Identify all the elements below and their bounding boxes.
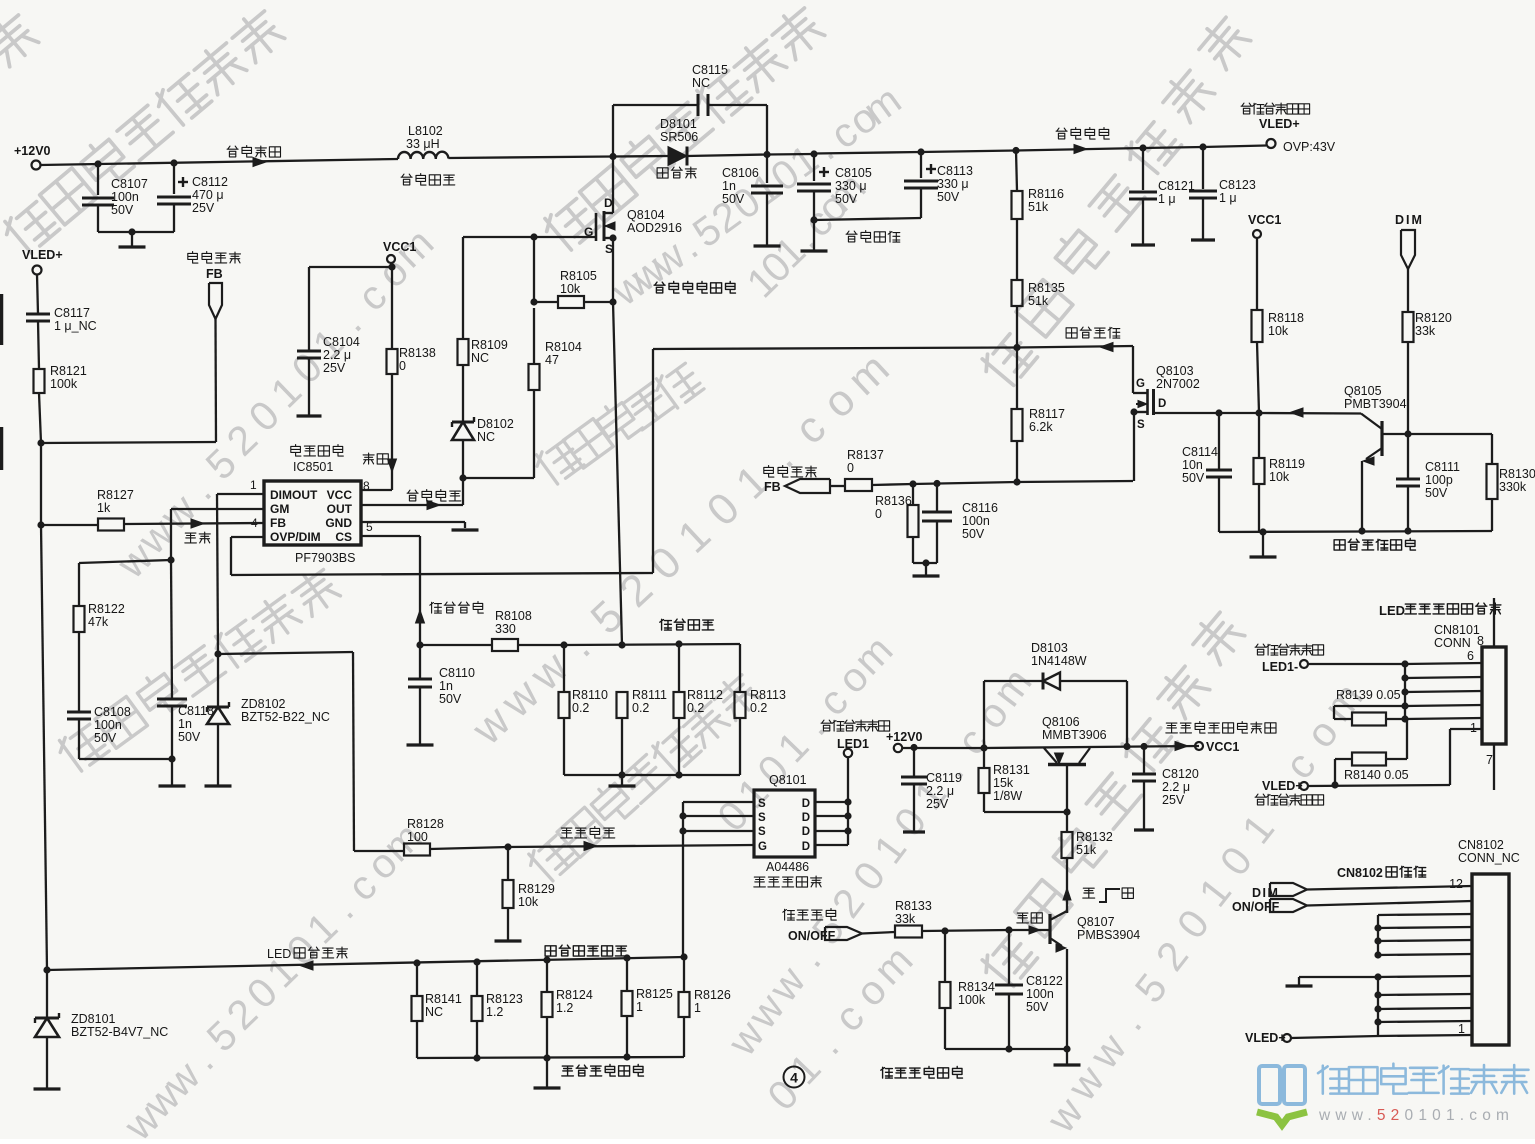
svg-text:33k: 33k xyxy=(1415,324,1436,338)
capacitor C8112 electrolytic xyxy=(173,163,175,194)
node xyxy=(473,1054,480,1061)
ground below C8107/C8112 xyxy=(131,232,133,246)
svg-text:PF7903BS: PF7903BS xyxy=(295,551,355,565)
node R8111 bottom xyxy=(618,771,625,778)
label 点灯控制电路 xyxy=(881,1067,893,1078)
node R8105 right xyxy=(609,298,616,305)
resistor R8122 xyxy=(74,606,85,632)
svg-text:25V: 25V xyxy=(1162,793,1185,807)
svg-text:100p: 100p xyxy=(1425,473,1453,487)
svg-text:R8134: R8134 xyxy=(958,980,995,994)
svg-text:6: 6 xyxy=(1467,649,1474,663)
svg-text:R8135: R8135 xyxy=(1028,281,1065,295)
svg-text:4: 4 xyxy=(790,1070,798,1086)
svg-text:47k: 47k xyxy=(88,615,109,629)
svg-text:C8108: C8108 xyxy=(94,705,131,719)
zener diode ZD8102 BZT52-B22_NC xyxy=(217,654,219,707)
resistor R8133 33k xyxy=(862,932,895,934)
resistor R8116 51k xyxy=(1016,151,1017,192)
svg-text:Q8104: Q8104 xyxy=(627,208,665,222)
watermark band: www.520101.com upper-middle xyxy=(603,259,655,314)
svg-text:DIMOUT: DIMOUT xyxy=(270,488,318,502)
label 开关 waveform xyxy=(1083,888,1095,898)
svg-text:50V: 50V xyxy=(1425,486,1448,500)
svg-text:50V: 50V xyxy=(111,203,134,217)
logo book icon xyxy=(1259,1066,1280,1104)
svg-text:50V: 50V xyxy=(1026,1000,1049,1014)
wire R8104 lower xyxy=(533,390,535,478)
wire VCC1 to R8118 xyxy=(1256,238,1258,310)
watermark band: 0101.com fragment center-left-low xyxy=(709,792,758,840)
capacitor C8118 xyxy=(157,698,187,701)
pin 6 wire xyxy=(1405,663,1482,664)
svg-text:8: 8 xyxy=(1477,634,1484,648)
wire R8136/C8116 bottoms xyxy=(913,562,937,564)
arrow into base xyxy=(1029,926,1040,934)
svg-text:LED1: LED1 xyxy=(837,737,869,751)
wire Q8101 S pins to bus xyxy=(683,801,754,803)
svg-text:R8122: R8122 xyxy=(88,602,125,616)
node R8141 top xyxy=(413,959,420,966)
svg-text:C8119: C8119 xyxy=(926,771,962,785)
svg-text:S: S xyxy=(758,826,766,838)
svg-text:0.2: 0.2 xyxy=(572,701,589,715)
capacitor C8105 electrolytic xyxy=(813,154,815,181)
label 亮度调整电路 xyxy=(1334,540,1345,550)
wire C8113 to R8116 column xyxy=(921,151,1016,153)
wire base net to R8130 xyxy=(1408,433,1492,435)
label 升压滤波 xyxy=(846,231,857,242)
svg-text:330k: 330k xyxy=(1499,480,1527,494)
node C8120 top xyxy=(1140,743,1147,750)
svg-text:25V: 25V xyxy=(323,361,346,375)
wire GM node down to C8118 xyxy=(171,560,172,699)
svg-text:50V: 50V xyxy=(937,190,960,204)
svg-text:50V: 50V xyxy=(178,730,201,744)
svg-text:0.2: 0.2 xyxy=(750,701,767,715)
node VCC1/C8104 xyxy=(388,263,395,270)
svg-text:PMBT3904: PMBT3904 xyxy=(1344,397,1407,411)
svg-text:R8123: R8123 xyxy=(486,992,523,1006)
svg-text:D: D xyxy=(802,826,810,838)
terminal VCC1 backlight supply xyxy=(1195,742,1203,750)
wire brightness bottom rail xyxy=(1219,531,1492,532)
svg-text:1: 1 xyxy=(1458,1022,1465,1036)
node R8116 top xyxy=(1012,147,1019,154)
node C8121 top xyxy=(1139,144,1146,151)
capacitor C8106 xyxy=(766,155,768,184)
svg-text:6.2k: 6.2k xyxy=(1029,420,1053,434)
wire R8122 to C8108 xyxy=(78,632,80,712)
watermark band: 家电维修资料网 mid-left xyxy=(54,721,109,775)
resistor R8105 xyxy=(534,301,558,303)
pin 5 wire xyxy=(1405,677,1482,678)
node CS/R8108/C8110 xyxy=(416,641,423,648)
resistor R8126 1 xyxy=(683,957,685,992)
node R8124 top xyxy=(543,956,550,963)
node xyxy=(1374,1005,1381,1012)
svg-text:OVP/DIM: OVP/DIM xyxy=(270,530,321,544)
svg-text:R8140 0.05: R8140 0.05 xyxy=(1344,768,1409,782)
node C8122 bottom xyxy=(1005,1045,1012,1052)
svg-text:D: D xyxy=(1158,398,1166,410)
svg-text:R8129: R8129 xyxy=(518,882,555,896)
svg-text:C8120: C8120 xyxy=(1162,767,1199,781)
svg-text:1.2: 1.2 xyxy=(486,1005,503,1019)
diode D8103 1N4148W loop xyxy=(983,681,985,748)
node C8105 top xyxy=(810,150,817,157)
wire to C8104 xyxy=(309,266,392,268)
arrow brightness into node xyxy=(1290,408,1303,417)
svg-text:D: D xyxy=(802,841,810,853)
node left column bottom xyxy=(43,966,50,973)
arrow 反馈 feedback xyxy=(191,519,204,528)
terminal LED1- 接LED负极 xyxy=(1255,644,1266,655)
node C8116 top xyxy=(933,480,940,487)
wire OUT pin path xyxy=(462,478,464,505)
wire DIM to pin 12 xyxy=(1307,886,1472,890)
svg-text:1n: 1n xyxy=(722,179,736,193)
svg-text:R8104: R8104 xyxy=(545,340,582,354)
wire Q8103 drain net xyxy=(1154,412,1220,414)
arrow 过流保护 overcurrent protect xyxy=(416,610,425,623)
svg-text:12: 12 xyxy=(1449,877,1463,891)
watermark band: 家电维修资料网 fragment center-low xyxy=(524,832,577,885)
node R8123 top xyxy=(473,958,480,965)
wire R8121 down to FB node xyxy=(39,393,41,443)
resistor R8129 10k xyxy=(507,847,509,880)
node xyxy=(1374,973,1381,980)
svg-text:1N4148W: 1N4148W xyxy=(1031,654,1087,668)
node S2 xyxy=(679,812,686,819)
svg-text:R8136: R8136 xyxy=(875,494,912,508)
mosfet array Q8101 A04486 dimming switch xyxy=(754,790,815,857)
resistor R8118 10k xyxy=(1252,310,1263,342)
svg-text:0: 0 xyxy=(847,461,854,475)
label 调流控制电路 xyxy=(562,1066,574,1076)
transistor Q8105 PMBT3904 xyxy=(1380,421,1383,456)
svg-text:www.520101.com: www.520101.com xyxy=(1318,1107,1514,1124)
svg-text:R8111: R8111 xyxy=(632,688,667,702)
wire C8105/C8113 bottoms xyxy=(814,218,921,220)
svg-text:33k: 33k xyxy=(895,912,916,926)
label 供电 with down arrow xyxy=(363,453,374,464)
svg-text:D: D xyxy=(802,798,810,810)
resistor R8119 10k xyxy=(1258,413,1260,458)
terminal VCC1 mid-left xyxy=(391,263,392,267)
svg-text:1/8W: 1/8W xyxy=(993,789,1022,803)
wire FB flag down-left xyxy=(214,319,217,442)
svg-text:AOD2916: AOD2916 xyxy=(627,221,682,235)
svg-text:470 μ: 470 μ xyxy=(192,188,224,202)
svg-text:R8138: R8138 xyxy=(399,346,436,360)
svg-text:R8113: R8113 xyxy=(750,688,786,702)
node B after diode xyxy=(763,151,770,158)
svg-text:2N7002: 2N7002 xyxy=(1156,377,1200,391)
resistor R8130 330k xyxy=(1491,434,1493,464)
svg-text:51k: 51k xyxy=(1076,843,1097,857)
node S3 xyxy=(679,827,686,834)
arrow LED电流反馈 xyxy=(300,961,313,970)
bus vertical xyxy=(1404,664,1406,719)
node A drain/diode junction xyxy=(609,153,616,160)
svg-text:NC: NC xyxy=(477,430,495,444)
label 开关 xyxy=(1017,913,1029,923)
svg-text:R8117: R8117 xyxy=(1029,407,1065,421)
resistor R8113 0.2 xyxy=(739,644,741,692)
ground CN8102 bus xyxy=(1299,976,1378,978)
svg-text:R8131: R8131 xyxy=(993,763,1030,777)
wire 亮度调整 brightness adjust net xyxy=(653,348,1017,350)
node C8105 bottom xyxy=(810,216,817,223)
svg-text:S: S xyxy=(1137,419,1145,431)
node pin1 xyxy=(1401,715,1408,722)
resistor R8108 330 xyxy=(420,644,492,646)
svg-text:C8117: C8117 xyxy=(54,306,90,320)
watermark band: 家电维修资料网 top-middle xyxy=(540,195,600,255)
svg-text:7: 7 xyxy=(1486,753,1493,767)
svg-text:CN8101: CN8101 xyxy=(1434,623,1480,637)
svg-text:R8121: R8121 xyxy=(50,364,87,378)
label 电流取样电阻 xyxy=(545,946,556,956)
resistor R8104 xyxy=(529,364,540,390)
resistor R8111 0.2 xyxy=(617,692,628,718)
wire +12V0 rail xyxy=(902,747,984,749)
svg-text:R8112: R8112 xyxy=(687,688,723,702)
svg-text:CONN_NC: CONN_NC xyxy=(1458,851,1520,865)
svg-text:R8126: R8126 xyxy=(694,988,731,1002)
svg-text:33 μH: 33 μH xyxy=(406,137,440,151)
svg-text:DIM: DIM xyxy=(1395,213,1424,227)
arrow 亮度调整 xyxy=(1100,343,1113,352)
svg-text:15k: 15k xyxy=(993,776,1014,790)
svg-text:R8139 0.05: R8139 0.05 xyxy=(1336,688,1401,702)
svg-text:D8101: D8101 xyxy=(660,117,697,131)
svg-text:FB: FB xyxy=(764,480,781,494)
svg-text:R8133: R8133 xyxy=(895,899,932,913)
watermark partial char top-left corner xyxy=(0,10,41,69)
watermark band: www.520101.com left-middle xyxy=(108,533,162,588)
pin OVP/DIM wire loop xyxy=(231,536,264,538)
arrow switch on collector xyxy=(1063,888,1071,900)
node pin5 xyxy=(1401,674,1408,681)
svg-text:C8114: C8114 xyxy=(1182,445,1218,459)
pin 1 DIMOUT wire xyxy=(217,493,264,495)
svg-text:R8108: R8108 xyxy=(495,609,532,623)
wire dim drive to Q8101 gate xyxy=(508,845,754,847)
wire gate to junction xyxy=(534,236,596,238)
zener diode D8102 NC xyxy=(452,421,474,424)
node R8134 top xyxy=(941,927,948,934)
svg-text:FB: FB xyxy=(206,267,223,281)
resistor R8134 100k xyxy=(944,931,946,982)
svg-text:1 μ: 1 μ xyxy=(1219,191,1237,205)
watermark band: www.520101.com center-low xyxy=(718,1012,773,1064)
wire C8107/C8112 bottoms xyxy=(98,231,174,233)
svg-text:CN8102: CN8102 xyxy=(1337,866,1383,880)
svg-text:R8128: R8128 xyxy=(407,817,444,831)
wire +12V0 rail to inductor xyxy=(41,159,399,165)
resistor R8123 1.2 xyxy=(476,962,478,996)
node divider mid xyxy=(1013,344,1020,351)
wire ON/OFF to pin 11 xyxy=(1307,901,1472,906)
wire down to R8128 xyxy=(353,652,354,851)
pin 7 stub xyxy=(1493,744,1495,790)
svg-text:CN8102: CN8102 xyxy=(1458,838,1504,852)
watermark band: www.520101.com center xyxy=(462,696,520,754)
capacitor C8121 xyxy=(1142,148,1144,190)
svg-text:VCC1: VCC1 xyxy=(1206,740,1239,754)
svg-text:C8107: C8107 xyxy=(111,177,148,191)
watermark band: 家电维修资 fragment center xyxy=(531,436,584,488)
svg-text:BZT52-B22_NC: BZT52-B22_NC xyxy=(241,710,330,724)
svg-text:0: 0 xyxy=(875,507,882,521)
svg-text:A04486: A04486 xyxy=(766,860,809,874)
wire inductor to node A xyxy=(448,157,613,159)
arrow VCC1 supply out xyxy=(1175,742,1188,751)
svg-text:GND: GND xyxy=(325,516,352,530)
svg-text:VCC1: VCC1 xyxy=(1248,213,1281,227)
svg-text:R8105: R8105 xyxy=(560,269,597,283)
mosfet Q8104 AOD2916 xyxy=(612,157,614,214)
wire gate junction down to R8105 xyxy=(533,237,535,302)
node xyxy=(543,1054,550,1061)
svg-text:MMBT3906: MMBT3906 xyxy=(1042,728,1107,742)
svg-text:C8112: C8112 xyxy=(192,175,228,189)
node pin6 xyxy=(1401,660,1408,667)
svg-text:D: D xyxy=(802,812,810,824)
node R8129 top xyxy=(504,843,511,850)
resistor R8125 1 xyxy=(626,958,628,991)
resistor R8138 0 xyxy=(387,349,398,374)
node R8119 bottom xyxy=(1259,528,1266,535)
resistor R8131 15k 1/8W xyxy=(983,748,985,768)
svg-text:VLED+: VLED+ xyxy=(1259,117,1300,131)
svg-text:25V: 25V xyxy=(926,797,949,811)
zener diode ZD8101 BZT52-B4V7_NC xyxy=(46,970,48,1018)
svg-text:C8116: C8116 xyxy=(962,501,998,515)
page number 4 circled xyxy=(784,1067,805,1088)
wire VLED+ down to C8117 xyxy=(37,275,38,315)
node OUT riser junction xyxy=(459,474,466,481)
svg-text:VCC: VCC xyxy=(327,488,353,502)
node xyxy=(1374,1018,1381,1025)
node C8122/base xyxy=(1005,926,1012,933)
scan edge mark left lower xyxy=(0,427,3,470)
svg-text:R8132: R8132 xyxy=(1076,830,1113,844)
svg-text:1 μ_NC: 1 μ_NC xyxy=(54,319,97,333)
wire bottom rail lighting ctrl xyxy=(945,1048,1067,1050)
node ground xyxy=(922,559,929,566)
svg-text:100n: 100n xyxy=(111,190,139,204)
capacitor C8113 electrolytic xyxy=(920,152,922,178)
svg-text:100k: 100k xyxy=(50,377,78,391)
svg-text:R8124: R8124 xyxy=(556,988,593,1002)
svg-text:+12V0: +12V0 xyxy=(886,730,923,744)
node FB net at R8117 xyxy=(1013,478,1020,485)
svg-text:1: 1 xyxy=(694,1001,701,1015)
resistor R8109 NC xyxy=(458,339,469,365)
svg-text:R8116: R8116 xyxy=(1028,187,1064,201)
svg-text:OVP:43V: OVP:43V xyxy=(1283,140,1336,154)
svg-text:CONN: CONN xyxy=(1434,636,1471,650)
wire R8104 top to R8105 left xyxy=(533,308,535,364)
svg-text:10k: 10k xyxy=(560,282,581,296)
pin 8 stub xyxy=(1493,598,1495,647)
watermark band: 家电维修资料网 top-left xyxy=(0,198,60,258)
bus and pin wires CN8102 xyxy=(1378,914,1472,915)
label 升压输出电路 xyxy=(654,282,665,293)
capacitor C8119 xyxy=(913,748,915,778)
wire source line down to current sense row xyxy=(613,302,622,645)
node ZD8102 junction xyxy=(214,650,221,657)
node R8105 left xyxy=(530,298,537,305)
svg-text:0.2: 0.2 xyxy=(687,701,704,715)
transistor Q8107 PMBS3904 npn xyxy=(1048,914,1051,944)
svg-text:25V: 25V xyxy=(192,201,215,215)
node xyxy=(1374,991,1381,998)
node Q8105 emitter bottom xyxy=(1358,527,1365,534)
node C8119 xyxy=(910,744,917,751)
pin 4 wire xyxy=(1405,691,1482,692)
svg-text:R8118: R8118 xyxy=(1268,311,1304,325)
watermark band: 101.com fragment upper-middle-left xyxy=(738,258,786,307)
pin 3 wire xyxy=(1405,705,1482,706)
node D1 xyxy=(844,798,851,805)
resistor R8128 100 xyxy=(354,850,404,852)
pin CS wire xyxy=(361,535,420,537)
svg-text:50V: 50V xyxy=(722,192,745,206)
label 升压输出 with arrow xyxy=(1056,128,1067,139)
wire down to R8109 xyxy=(462,237,464,339)
svg-text:S: S xyxy=(605,242,613,256)
ground brightness circuit xyxy=(1262,532,1264,556)
wire ZD8102 node to dim branch xyxy=(218,652,353,654)
node R8112 top xyxy=(675,640,682,647)
svg-text:50V: 50V xyxy=(94,731,117,745)
node D2 xyxy=(844,812,851,819)
svg-text:G: G xyxy=(758,841,767,853)
wire D8102 to OUT node xyxy=(462,440,464,478)
svg-text:0.2: 0.2 xyxy=(632,701,649,715)
capacitor C8116 xyxy=(936,484,938,513)
svg-text:CS: CS xyxy=(335,530,352,544)
terminal 点灯控制 ON/OFF flag xyxy=(783,909,795,920)
wire sampling bottom rail xyxy=(417,1057,684,1058)
node D3 xyxy=(844,827,851,834)
svg-text:10k: 10k xyxy=(1269,470,1290,484)
ground below C8118 xyxy=(171,759,173,785)
node C8113 top xyxy=(917,148,924,155)
wire C8117 to R8121 xyxy=(38,321,39,369)
node pin4 xyxy=(1401,688,1408,695)
node D8103 right xyxy=(1123,743,1130,750)
svg-text:C8105: C8105 xyxy=(835,166,872,180)
resistor R8117 6.2k xyxy=(1016,348,1018,410)
svg-text:S: S xyxy=(758,812,766,824)
svg-text:NC: NC xyxy=(425,1005,443,1019)
pin GM wire xyxy=(171,508,264,510)
wire VLED+ to pin below 1 xyxy=(1449,729,1451,785)
svg-text:NC: NC xyxy=(471,351,489,365)
svg-text:VCC1: VCC1 xyxy=(383,240,416,254)
wire GM node left to R8122 xyxy=(79,560,171,563)
capacitor C8107 xyxy=(97,164,99,195)
wire sense rail xyxy=(564,644,740,645)
svg-text:2.2 μ: 2.2 μ xyxy=(323,348,351,362)
logo text 家电维修资料网 xyxy=(1318,1066,1348,1094)
svg-text:1 μ: 1 μ xyxy=(1158,192,1176,206)
